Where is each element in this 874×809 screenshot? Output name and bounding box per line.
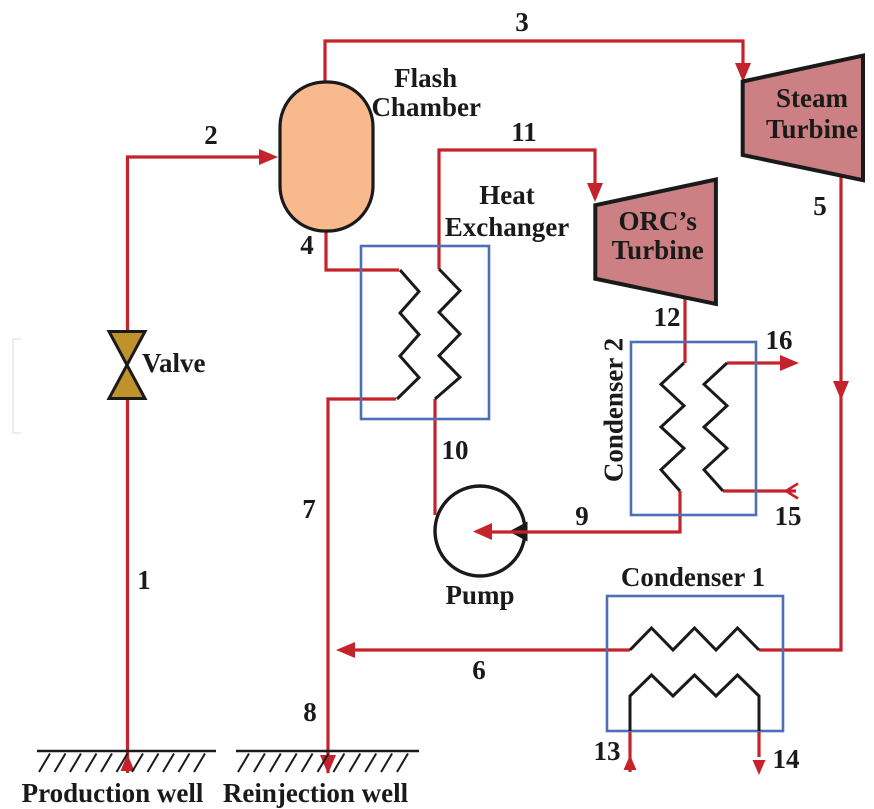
svg-text:4: 4 [300, 230, 314, 260]
svg-text:8: 8 [303, 697, 317, 727]
svg-text:ORC’s: ORC’s [618, 206, 697, 236]
svg-text:Pump: Pump [445, 580, 514, 610]
svg-text:13: 13 [594, 736, 621, 766]
svg-text:Condenser 1: Condenser 1 [621, 562, 765, 592]
svg-text:15: 15 [775, 501, 802, 531]
svg-text:Chamber: Chamber [371, 92, 481, 122]
svg-text:11: 11 [511, 117, 537, 147]
svg-text:Production well: Production well [22, 778, 204, 808]
svg-text:1: 1 [137, 565, 151, 595]
svg-text:16: 16 [766, 325, 793, 355]
svg-text:3: 3 [515, 7, 529, 37]
svg-text:14: 14 [773, 744, 800, 774]
svg-text:Steam: Steam [776, 83, 848, 113]
svg-text:10: 10 [442, 435, 469, 465]
svg-text:Reinjection well: Reinjection well [223, 778, 409, 808]
svg-text:6: 6 [472, 655, 486, 685]
svg-text:Exchanger: Exchanger [445, 212, 570, 242]
svg-text:9: 9 [575, 501, 589, 531]
svg-text:Condenser 2: Condenser 2 [599, 338, 629, 482]
svg-text:7: 7 [302, 494, 316, 524]
svg-text:Heat: Heat [479, 180, 534, 210]
svg-text:Turbine: Turbine [766, 114, 858, 144]
svg-text:12: 12 [654, 302, 681, 332]
svg-text:Flash: Flash [394, 63, 457, 93]
svg-text:Valve: Valve [142, 348, 206, 378]
svg-text:Turbine: Turbine [612, 235, 704, 265]
svg-text:5: 5 [813, 191, 827, 221]
svg-text:2: 2 [204, 120, 218, 150]
